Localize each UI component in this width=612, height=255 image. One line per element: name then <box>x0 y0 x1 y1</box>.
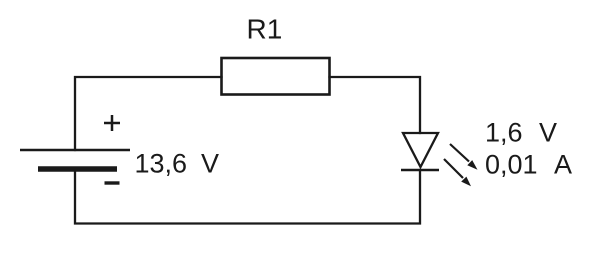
wire top-right: resistor R1 right pin to LED anode <box>330 77 421 133</box>
battery negative plate (short thick) <box>38 166 117 172</box>
resistor R1 (box symbol) <box>222 58 330 95</box>
LED D1 triangle (anode) <box>403 133 438 167</box>
svg-text:1,6 V: 1,6 V <box>485 118 557 148</box>
LED light arrow 1 <box>450 144 478 170</box>
LED D1 cathode bar <box>401 169 439 172</box>
battery plus sign <box>104 115 120 131</box>
wire top-left: battery + terminal up and across to resistor R1 left pin <box>75 77 222 150</box>
svg-text:13,6 V: 13,6 V <box>135 149 220 179</box>
svg-text:0,01 A: 0,01 A <box>485 150 572 180</box>
wire bottom: LED cathode down, across and up to battery - terminal <box>75 169 420 224</box>
battery positive plate (long thin) <box>20 149 130 152</box>
LED light arrow 2 <box>444 159 471 186</box>
battery minus sign <box>105 181 120 184</box>
svg-text:R1: R1 <box>247 14 283 45</box>
